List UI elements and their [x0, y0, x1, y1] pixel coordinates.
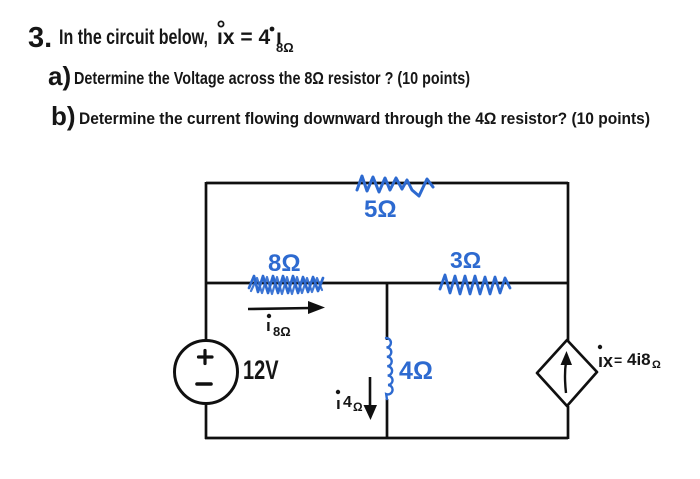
svg-text:b): b): [51, 101, 76, 131]
wire: middle horizontal rail: [206, 282, 568, 285]
svg-text:Ω: Ω: [652, 359, 661, 371]
svg-text:4: 4: [343, 394, 352, 411]
resistor R 8ohm (blue scribble on middle wire, left): [249, 276, 323, 293]
problem text line 3: [51, 101, 650, 131]
wire: left side, top-left corner down to 12V + terminal: [205, 182, 208, 341]
label i4ohm: [336, 390, 363, 414]
svg-text:ı: ı: [266, 316, 271, 335]
problem text line 2: [48, 61, 470, 91]
svg-text:In the circuit below,: In the circuit below,: [59, 26, 208, 49]
wire: right side, top-right corner to dependent source top: [567, 182, 570, 341]
label i8ohm: [266, 314, 291, 339]
svg-text:8Ω: 8Ω: [268, 250, 301, 277]
svg-text:Determine the Voltage across t: Determine the Voltage across the 8Ω resi…: [74, 68, 470, 88]
svg-text:3.: 3.: [28, 22, 52, 54]
plus sign inside source: [199, 351, 213, 364]
wire: top (node between 12V top and 5ohm, to top-right corner): [206, 182, 568, 185]
svg-text:Determine the current flowing: Determine the current flowing downward t…: [79, 110, 650, 128]
wire: middle vertical branch, junction to 4ohm top: [386, 283, 389, 340]
voltage source V1 12V (circle): [175, 341, 238, 404]
svg-text:ıx: ıx: [598, 351, 613, 371]
svg-text:12V: 12V: [243, 355, 279, 386]
problem text line 1: [28, 21, 294, 55]
wire: left side, 12V - terminal to bottom-left corner: [205, 403, 208, 439]
svg-text:8Ω: 8Ω: [276, 40, 294, 55]
svg-text:8Ω: 8Ω: [273, 324, 291, 339]
wire: middle vertical branch, 4ohm bottom to bottom rail: [386, 399, 389, 439]
svg-text:a): a): [48, 61, 71, 91]
svg-text:ı: ı: [336, 394, 341, 413]
arrow inside dependent source (pointing up): [561, 351, 573, 393]
minus sign inside source: [197, 382, 211, 386]
svg-text:3Ω: 3Ω: [450, 247, 481, 273]
current arrow i4ohm (downward, left of 4ohm): [364, 377, 378, 420]
resistor R 3ohm (blue scribble on middle wire, right): [440, 275, 510, 294]
svg-text:4i8: 4i8: [627, 350, 651, 369]
wire: bottom rail: [205, 437, 568, 440]
svg-text:Ω: Ω: [353, 400, 363, 414]
label ix = 4 i8ohm: [598, 345, 661, 371]
resistor R 4ohm (blue vertical coil on middle branch): [386, 338, 393, 399]
current arrow i8ohm (under 8ohm resistor): [248, 301, 325, 314]
resistor R 5ohm (blue scribble on top wire): [357, 176, 433, 196]
dependent current source (diamond): [537, 340, 597, 406]
svg-text:=: =: [614, 352, 622, 368]
svg-text:5Ω: 5Ω: [364, 196, 397, 223]
wire: right side, dependent source bottom to bottom-right corner: [567, 406, 570, 439]
svg-text:4Ω: 4Ω: [399, 357, 433, 385]
